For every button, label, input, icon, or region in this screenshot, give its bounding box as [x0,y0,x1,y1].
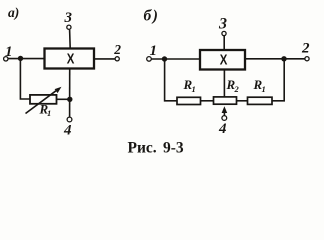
wire R2 to right R1 (circuit b) [237,100,248,102]
wire terminal3 to box top (circuit b) [223,36,225,50]
terminal 3 (circuit a) [67,25,71,29]
terminal 1 (circuit a) [4,57,8,61]
wire R1 to R2 (circuit b) [201,100,214,102]
wire terminal3 to box top (circuit a) [69,30,72,49]
wire terminal1 to box left (circuit b) [152,58,201,60]
terminal 1 (circuit b) [147,57,152,62]
resistor R1 body (circuit b, left) [177,97,201,104]
svg-text:3: 3 [64,10,73,26]
wiper arrow tap into R2 (circuit b) [222,106,228,115]
svg-text:X: X [67,51,75,67]
terminal 2 (circuit a) [115,57,119,61]
svg-text:2: 2 [234,84,240,94]
wire left junction down to R1 (circuit b) [165,59,177,101]
svg-text:б): б) [144,8,160,25]
svg-text:2: 2 [113,42,121,57]
resistor R2 body (circuit b, middle) [214,97,237,104]
wire box bottom to R2 top (circuit b) [223,70,225,97]
wire R1 right to node (circuit a) [57,98,71,100]
terminal 4 (circuit a) [67,117,72,122]
terminal 3 (circuit b) [222,31,226,35]
svg-text:4: 4 [218,121,227,137]
svg-text:1: 1 [262,84,266,94]
terminal 4 (circuit b) [222,116,227,121]
wire terminal1 to box left (circuit a) [8,58,44,60]
svg-text:4: 4 [63,123,72,139]
wire right R1 up to node (circuit b) [272,59,284,101]
wire box right to terminal 2 (circuit b) [245,58,305,60]
resistor R1 body (circuit b, right) [248,97,273,104]
svg-text:3: 3 [218,16,227,33]
figure caption [128,139,184,156]
svg-text:Рис.: Рис. [128,139,157,156]
terminal 2 (circuit b) [305,57,309,61]
svg-text:X: X [220,53,228,69]
value label R1 (circuit b, left) [183,77,196,94]
resistor R1 body (circuit a, variable) [30,95,57,104]
variable-resistor arrow (circuit a) [26,87,62,114]
wire box bottom to terminal 4 (circuit a) [69,69,71,118]
wire box right to terminal 2 (circuit a) [94,58,115,60]
value label R1 (circuit a) [39,102,52,119]
junction node (circuit b, left) [162,56,167,61]
measuring element box X (circuit a) [45,49,95,69]
junction node (circuit a, bottom) [67,97,72,102]
svg-text:2: 2 [301,41,310,57]
junction node (circuit b, right) [281,56,286,61]
wire junction down to R1 (circuit a) [20,58,30,99]
value label R2 (circuit b) [226,77,240,94]
svg-text:9-3: 9-3 [163,139,184,156]
svg-text:1: 1 [192,84,196,94]
junction node (circuit a, left) [18,56,23,61]
measuring element box X (circuit b) [200,50,245,70]
svg-text:1: 1 [47,108,51,118]
svg-text:а): а) [8,5,19,20]
value label R1 (circuit b, right) [253,77,266,94]
svg-text:1: 1 [5,44,13,60]
